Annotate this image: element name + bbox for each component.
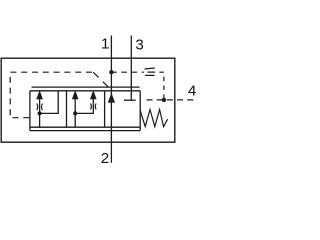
cell 1 orifice <box>37 104 43 111</box>
pilot wire diagonal dashed <box>93 72 108 87</box>
pilot wire dashed to vent <box>111 71 144 73</box>
dashed enclosure left <box>10 72 92 118</box>
bottom rail wire <box>30 130 140 132</box>
cell 2 step wire <box>75 97 93 114</box>
port 3 blocked T <box>124 99 136 101</box>
cell 1 junction dot <box>38 111 42 115</box>
valve box left <box>29 91 31 131</box>
cell 1 flow arrow <box>36 90 43 99</box>
pilot wire dashed vent to port 4 corner <box>159 72 164 100</box>
vent symbol <box>145 68 156 75</box>
cell 1 step wire <box>40 91 59 114</box>
valve box top <box>30 90 140 92</box>
valve box right inner <box>104 91 106 127</box>
svg-text:2: 2 <box>101 150 109 167</box>
port 4 dashed wire <box>147 99 197 101</box>
svg-text:3: 3 <box>135 36 143 53</box>
port 1-2 line <box>110 36 112 163</box>
cell 2 junction dot <box>73 111 77 115</box>
cell 2 flow arrow right <box>90 90 97 99</box>
node at port 4 junction <box>162 98 166 102</box>
valve box bottom <box>30 126 140 128</box>
svg-text:4: 4 <box>188 83 196 100</box>
cell 1 flow line <box>39 97 41 128</box>
cell divider <box>66 91 68 127</box>
top rail wire <box>32 86 140 88</box>
outer housing rect <box>1 58 175 142</box>
cell 2 flow line <box>74 97 76 128</box>
port 3 line <box>130 36 132 100</box>
valve right frame <box>139 91 141 131</box>
svg-text:1: 1 <box>101 36 109 53</box>
node on port 1 pilot junction <box>109 70 113 74</box>
cell 2 orifice <box>91 104 97 110</box>
main flow arrow port 1 <box>108 93 115 103</box>
cell 2 flow arrow <box>72 90 79 99</box>
spring <box>140 110 167 127</box>
